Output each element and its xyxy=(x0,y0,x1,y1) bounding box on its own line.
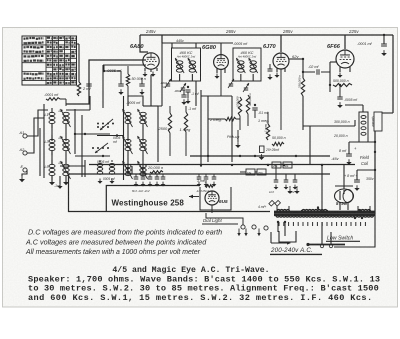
pins V1 xyxy=(145,68,157,72)
power transformer primary loops xyxy=(276,216,374,218)
coil cluster chassis b xyxy=(109,160,115,184)
resistor 250000 xyxy=(298,75,305,96)
ground osc cap xyxy=(118,89,123,95)
ground top right xyxy=(381,50,387,56)
label padder .0005b xyxy=(113,136,121,144)
trimmer T1 b xyxy=(174,83,186,93)
resistor h left small xyxy=(46,98,60,101)
wire switch h4 xyxy=(75,155,110,157)
labels caps row1 xyxy=(132,189,151,193)
divider resistor box 3 xyxy=(272,162,281,168)
wire 2meg h xyxy=(208,118,240,120)
dial lamp 2 xyxy=(252,225,256,229)
wire 6U5 box xyxy=(200,187,231,210)
resistor 50000 osc xyxy=(126,74,146,86)
label -0005 osc top xyxy=(126,101,141,105)
label tube V2 6G8G xyxy=(202,45,217,51)
wire gang feed xyxy=(66,60,146,104)
ground coils 2 xyxy=(63,179,69,185)
label 200-240v AC xyxy=(270,247,322,254)
tube V5 6U5 magic eye xyxy=(205,191,219,205)
power transformer core xyxy=(274,212,375,215)
wire speaker top xyxy=(345,98,363,112)
resistor antenna series xyxy=(77,58,80,96)
cap pad2 xyxy=(139,78,144,86)
label Pickup xyxy=(227,135,239,139)
junction rail dots xyxy=(200,155,323,166)
caption line 4 xyxy=(28,293,373,303)
wire grid row2 xyxy=(103,65,146,108)
cap 4mf diamonds xyxy=(269,200,281,206)
terminal E xyxy=(21,164,28,172)
resistor 2meg h xyxy=(225,117,236,120)
coil L1 aerial primary xyxy=(49,108,55,128)
ground coils 1 xyxy=(49,179,55,185)
tube V2 6G8G xyxy=(214,55,229,70)
label cap .0005 T2 xyxy=(233,42,248,46)
wire 6F6 grid xyxy=(330,62,336,92)
arrow into 6U5 xyxy=(189,195,199,199)
wire aerial A1 xyxy=(27,110,48,136)
ground pad2 xyxy=(139,89,144,95)
ground V2 pin xyxy=(214,73,219,78)
coil L2 aerial tuned xyxy=(60,109,70,127)
cap 8mf field xyxy=(339,142,357,156)
label 300000 right xyxy=(334,120,350,124)
wire bus rail 3 xyxy=(132,173,330,175)
note measurements xyxy=(25,249,201,256)
wire mid vert4 xyxy=(231,96,233,162)
ground 25+25 xyxy=(259,154,265,160)
label 4mf xyxy=(258,205,266,209)
label 225v xyxy=(348,29,359,34)
cap -1 mf under T1 xyxy=(186,86,200,98)
wire plate 6J7G xyxy=(280,35,282,52)
junction 6F6 grid xyxy=(329,84,331,86)
ground V4 pin xyxy=(337,72,342,77)
label 50000 det xyxy=(272,136,286,140)
note DC voltages xyxy=(28,228,222,237)
label 2 meg xyxy=(209,117,222,122)
resistor 1meg 6U5 xyxy=(205,185,215,188)
terminal A2 xyxy=(19,147,28,155)
wire heater links xyxy=(277,206,370,211)
switch contact 2 xyxy=(329,244,332,247)
label Field Coil xyxy=(360,155,370,166)
label 285v xyxy=(282,29,293,34)
pins V2 xyxy=(217,68,225,96)
cap 6J7 cathode xyxy=(268,64,273,71)
label L4 xyxy=(59,136,63,140)
caption title xyxy=(112,265,269,275)
wire grid cap xyxy=(103,65,105,71)
speaker field box xyxy=(374,112,382,131)
label 1 meg 6U5 xyxy=(197,179,207,183)
wire res to coil xyxy=(60,99,66,106)
label Dial Light xyxy=(202,218,238,224)
wire mid vert1 xyxy=(158,106,162,162)
resistor 2500 xyxy=(158,113,172,133)
wire rect pins xyxy=(340,202,348,210)
coil L5 aerial primary xyxy=(49,160,55,180)
resistor 500000 xyxy=(333,79,352,87)
wire 6J7 out xyxy=(289,58,304,60)
wire osc col xyxy=(128,124,143,166)
wire aerial A2 xyxy=(27,118,44,153)
band switch S1b contacts xyxy=(92,143,109,153)
label -0001 mf det xyxy=(0,0,1,1)
resistor 20000 bus xyxy=(150,171,163,174)
wire IF rail xyxy=(162,39,233,43)
wire table side xyxy=(77,44,80,58)
power transformer heater loops B xyxy=(358,209,370,211)
label tube V1 6A8G xyxy=(130,44,144,50)
chassis box xyxy=(69,174,271,212)
label 0005 chassis xyxy=(103,177,116,181)
label L3 xyxy=(45,140,50,144)
wire 6U5 down xyxy=(206,205,243,225)
wire switch vert c xyxy=(123,96,125,180)
wire plate 6G8G xyxy=(220,43,222,55)
pins V3 xyxy=(277,68,285,130)
wire right edge join xyxy=(382,112,393,114)
junction xfmr dots xyxy=(277,210,371,223)
wire mains right xyxy=(306,243,345,246)
wire rail3 left xyxy=(131,166,133,174)
wire ps caps xyxy=(276,165,295,180)
ground under T1 xyxy=(185,98,190,104)
label -1mf coils xyxy=(54,184,62,188)
wire right mid2 xyxy=(310,126,344,186)
coil L11 osc xyxy=(122,161,132,179)
label speaker xyxy=(371,116,375,128)
coil L8 osc sec xyxy=(137,109,147,127)
divider resistor box 1 xyxy=(246,169,255,175)
wire left bus2 xyxy=(39,128,41,176)
label .0005 grid xyxy=(106,68,122,73)
ps cap labels xyxy=(269,190,296,194)
wire right low vert xyxy=(374,131,376,214)
wire right edge drop xyxy=(392,35,394,113)
IF transformer T2 xyxy=(233,48,261,81)
ground V3 pin xyxy=(274,72,279,77)
arrow lamp 2 xyxy=(244,229,247,237)
wire switch h1 xyxy=(66,96,90,110)
cap -01 mf xyxy=(252,104,269,118)
wire field link xyxy=(349,142,375,170)
wire switch bottom xyxy=(60,160,85,177)
coil L4 aerial tuned xyxy=(60,136,70,154)
ground coils 3 xyxy=(57,183,62,189)
wire drop IF1 xyxy=(161,35,163,43)
junction grid xyxy=(103,70,105,72)
ground earth terminal xyxy=(19,176,25,182)
tube V1 6A8G xyxy=(143,53,159,69)
wire AVC rail 2 xyxy=(89,164,355,166)
wire plate 6F6G xyxy=(344,35,346,49)
decoupling caps row 1 xyxy=(134,174,166,187)
cap -1mf mid xyxy=(181,90,186,97)
note AC voltages xyxy=(25,238,207,247)
coil L10 osc sec xyxy=(137,136,147,154)
label 265v xyxy=(225,29,236,34)
resistor 300000 v xyxy=(246,93,252,114)
resistor 50000 h xyxy=(272,142,284,145)
label 245v xyxy=(145,29,156,34)
trimmer T2 a xyxy=(228,79,234,88)
wire osc grid xyxy=(127,66,129,96)
decoupling caps row 2 xyxy=(197,174,217,187)
wire divider xyxy=(240,165,272,172)
wire coil col join xyxy=(52,124,66,164)
label -46v xyxy=(331,156,340,161)
arrow lamp 1 xyxy=(237,229,240,237)
cap 8mf 2 xyxy=(344,170,374,182)
wire rect top xyxy=(335,186,353,189)
trimmer T2 b xyxy=(243,83,249,92)
wire mid vert3 xyxy=(207,96,209,162)
wire resistors down xyxy=(240,114,248,130)
coil cluster chassis a xyxy=(97,160,103,184)
cap 2mf xyxy=(86,78,91,86)
wire v T1 down xyxy=(162,43,196,106)
wire left bus xyxy=(43,104,45,178)
wire bottom right corner xyxy=(334,214,375,247)
label L1 xyxy=(45,113,49,117)
switch contact 1 xyxy=(320,244,323,247)
label L5 xyxy=(45,165,50,169)
ground pickup xyxy=(235,130,241,148)
resistor 100000 v xyxy=(236,96,242,116)
label 62v xyxy=(292,54,299,59)
wire ht center tap xyxy=(317,206,319,211)
ground 6J7 cathode xyxy=(267,74,272,80)
wire switch drop xyxy=(322,222,331,244)
divider resistor box 2 xyxy=(257,169,266,175)
wire transformer drops xyxy=(278,222,285,236)
wire 1meg ends xyxy=(185,106,187,156)
resistor 1meg det xyxy=(264,112,270,140)
power transformer HT loops xyxy=(302,209,327,211)
trimmer T1 a xyxy=(160,79,171,89)
wire plate 6A8G xyxy=(140,35,148,52)
label padder2 .0005 xyxy=(97,160,110,164)
wire switch vert a xyxy=(74,109,76,154)
wire earth E xyxy=(22,170,27,176)
tube V6 5Y3G rectifier xyxy=(335,189,354,203)
label L6 xyxy=(59,161,64,165)
dial lamp 3 xyxy=(264,226,268,230)
label 2 mf xyxy=(82,86,91,91)
terminal A1 xyxy=(19,130,28,138)
wire AVC rail 1 xyxy=(190,155,330,157)
wire osc bottom xyxy=(128,166,143,174)
pins V4 xyxy=(340,67,350,72)
coil L9 osc xyxy=(122,136,132,154)
wire right mid xyxy=(303,120,355,126)
wire mid vert2 xyxy=(200,90,202,167)
coil L12 osc sec xyxy=(137,161,147,179)
wire 2500 ends xyxy=(169,106,171,156)
power transformer heater loops A xyxy=(277,209,289,211)
label 20000 right xyxy=(333,134,348,138)
dial lamp 1 xyxy=(241,225,245,229)
wire coils gnd xyxy=(52,176,66,184)
junction field xyxy=(374,141,376,171)
wire switch h2 xyxy=(74,133,110,135)
wire mid h under cans xyxy=(201,95,232,97)
labels caps row2 xyxy=(196,189,210,193)
band switch S1a contacts xyxy=(97,119,114,130)
label tube V3 6J7G xyxy=(263,44,276,50)
resistor 1meg v xyxy=(180,112,192,132)
wire ps vertical xyxy=(321,165,323,212)
IF transformer T1 xyxy=(172,48,201,81)
ground V1 pin2 xyxy=(150,71,155,76)
divider resistor box 4 xyxy=(283,162,292,168)
cap .0001 top right xyxy=(357,34,387,46)
label 5Y3G xyxy=(336,201,348,206)
coil L3 aerial primary xyxy=(49,135,55,155)
wire switch vert b xyxy=(81,115,83,177)
coil L7 osc xyxy=(122,109,132,127)
label 6U5 xyxy=(219,199,228,204)
label L2 xyxy=(59,109,63,113)
ground -0005 right xyxy=(337,102,343,108)
wire switch h3 xyxy=(97,134,124,136)
ground V1 pin xyxy=(142,71,147,76)
caption line 2 xyxy=(28,275,380,285)
voltage table xyxy=(22,36,77,85)
caption line 3 xyxy=(28,284,379,294)
cap -0005 right xyxy=(337,84,358,102)
label 20000 bus xyxy=(147,165,163,170)
cap .0005 osc xyxy=(104,71,124,86)
label tube V4 6F6G xyxy=(327,44,341,50)
label Westinghouse 258 xyxy=(112,199,185,208)
label 1 meg top xyxy=(258,119,269,123)
wire 6J7 plate load xyxy=(302,59,304,130)
wire B+ top rail xyxy=(140,34,393,36)
wire mains arrow xyxy=(271,232,291,245)
wire v 6A8 down xyxy=(143,75,158,106)
ground xfmr taps xyxy=(287,186,299,194)
wire lamp corner xyxy=(279,231,296,242)
wire osc top xyxy=(128,96,143,106)
tube V4 6F6G xyxy=(336,50,354,68)
wire drop IF1b xyxy=(172,43,196,48)
coil L6 aerial tuned xyxy=(60,161,70,179)
ground -1mf mid xyxy=(181,99,197,111)
cap 25+25 xyxy=(260,146,281,153)
label Low Switch xyxy=(326,236,360,242)
label box xyxy=(106,186,200,212)
ps caps xyxy=(274,180,298,190)
power transformer secondary ticks xyxy=(279,222,365,226)
cap -02 mf xyxy=(302,65,330,75)
output transformer T3 xyxy=(359,112,368,142)
tube V3 6J7G xyxy=(273,53,289,69)
ground 8mf caps xyxy=(346,159,359,191)
arrow lamp 3 xyxy=(257,229,260,237)
label .0001 mf left xyxy=(44,93,59,97)
